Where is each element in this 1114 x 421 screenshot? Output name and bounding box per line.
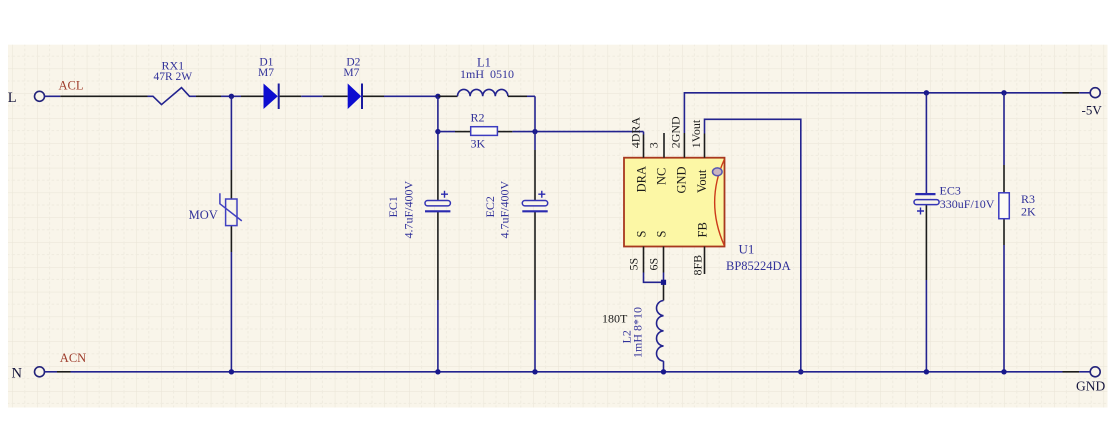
pin 6 stub (663, 247, 665, 273)
svg-text:3K: 3K (471, 136, 486, 150)
svg-text:5S: 5S (627, 258, 641, 271)
wire EC3 vertical (925, 93, 927, 372)
diode D1 (264, 84, 279, 110)
svg-text:R2: R2 (471, 111, 485, 125)
svg-text:ACL: ACL (59, 79, 84, 93)
wire D2 to EC1 junction (363, 95, 438, 97)
svg-text:1Vout: 1Vout (689, 119, 703, 148)
svg-text:8FB: 8FB (691, 255, 705, 276)
svg-text:NC: NC (654, 168, 668, 185)
diode D2 (348, 84, 362, 110)
svg-text:4DRA: 4DRA (629, 117, 643, 149)
svg-text:330uF/10V: 330uF/10V (940, 197, 995, 211)
junction EC1 bottom (435, 369, 440, 374)
svg-text:1mH 8*10: 1mH 8*10 (631, 307, 645, 358)
wire MOV vertical (230, 96, 232, 372)
port GND (1076, 367, 1105, 394)
resistor R2 (471, 127, 498, 136)
svg-text:EC2: EC2 (483, 196, 497, 217)
svg-text:MOV: MOV (189, 208, 218, 222)
pin 4 DRA stub (643, 135, 645, 158)
svg-text:L: L (8, 90, 17, 106)
wire D1 to D2 (280, 95, 348, 97)
svg-text:DRA: DRA (634, 166, 648, 192)
junction EC3 top (924, 90, 929, 95)
svg-text:4.7uF/400V: 4.7uF/400V (402, 180, 416, 238)
wire R3 vertical (1003, 93, 1005, 372)
svg-text:S: S (654, 231, 668, 238)
resistor R3 (999, 193, 1010, 219)
junction R2 row / EC2 (532, 129, 537, 134)
junction EC3 bottom (924, 369, 929, 374)
svg-text:BP85224DA: BP85224DA (726, 259, 791, 273)
pin 3 stub (663, 133, 665, 158)
svg-text:FB: FB (696, 222, 710, 237)
junction L2 bottom (661, 369, 666, 374)
wire Vout net (705, 119, 801, 371)
IC U1 body (624, 158, 725, 247)
capacitor EC2 (522, 191, 547, 212)
svg-text:2GND: 2GND (669, 116, 683, 148)
svg-text:EC1: EC1 (386, 196, 400, 217)
junction S pins (661, 280, 666, 285)
capacitor EC1 (425, 191, 450, 212)
wire R2 row (438, 132, 644, 135)
svg-text:1mH 0510: 1mH 0510 (460, 67, 514, 81)
pin 2 GND stub (683, 133, 685, 158)
svg-text:M7: M7 (343, 67, 359, 79)
svg-text:180T: 180T (602, 312, 628, 326)
pin 1 Vout stub (704, 134, 706, 158)
pin 8 FB stub (704, 247, 706, 275)
port N (12, 366, 45, 382)
svg-text:-5V: -5V (1082, 103, 1103, 118)
junction R3 top (1001, 90, 1006, 95)
wire N bottom rail (44, 371, 1090, 373)
varistor MOV (220, 193, 242, 225)
junction MOV bottom (229, 369, 234, 374)
wire EC1 vertical (437, 96, 439, 372)
junction EC2 bottom (532, 369, 537, 374)
svg-text:ACN: ACN (60, 351, 86, 365)
wire junction to D1 (241, 95, 264, 97)
wire L rail segments (44, 95, 147, 97)
svg-text:S: S (634, 231, 648, 238)
inductor L2 (657, 301, 664, 372)
junction at MOV top (229, 94, 234, 99)
svg-text:GND: GND (1076, 379, 1105, 394)
svg-text:6S: 6S (647, 258, 661, 271)
junction R3 bottom (1001, 369, 1006, 374)
junction EC1 / R2 row (435, 129, 440, 134)
wire GND net to -5V rail (684, 93, 1090, 133)
svg-text:GND: GND (674, 166, 688, 193)
pin 5 stub (643, 247, 645, 273)
wire EC2 vertical (534, 96, 536, 372)
inductor L1 (438, 89, 535, 96)
wire S pins to L2 (644, 273, 664, 301)
resistor RX1 (fusible zigzag) (148, 88, 197, 105)
svg-text:EC3: EC3 (940, 183, 961, 197)
port L (8, 90, 45, 106)
junction at EC1 top (435, 94, 440, 99)
capacitor EC3 (914, 194, 939, 214)
svg-text:47R 2W: 47R 2W (153, 71, 192, 83)
svg-text:4.7uF/400V: 4.7uF/400V (498, 180, 512, 238)
svg-text:2K: 2K (1021, 205, 1036, 219)
svg-text:3: 3 (647, 142, 661, 148)
wire RX1 to junction (196, 95, 241, 97)
port -5V (1082, 88, 1103, 118)
svg-text:N: N (12, 366, 23, 382)
junction Vout / bottom rail (798, 369, 803, 374)
svg-text:Vout: Vout (695, 169, 709, 193)
svg-text:U1: U1 (739, 242, 755, 257)
svg-text:M7: M7 (258, 67, 274, 79)
